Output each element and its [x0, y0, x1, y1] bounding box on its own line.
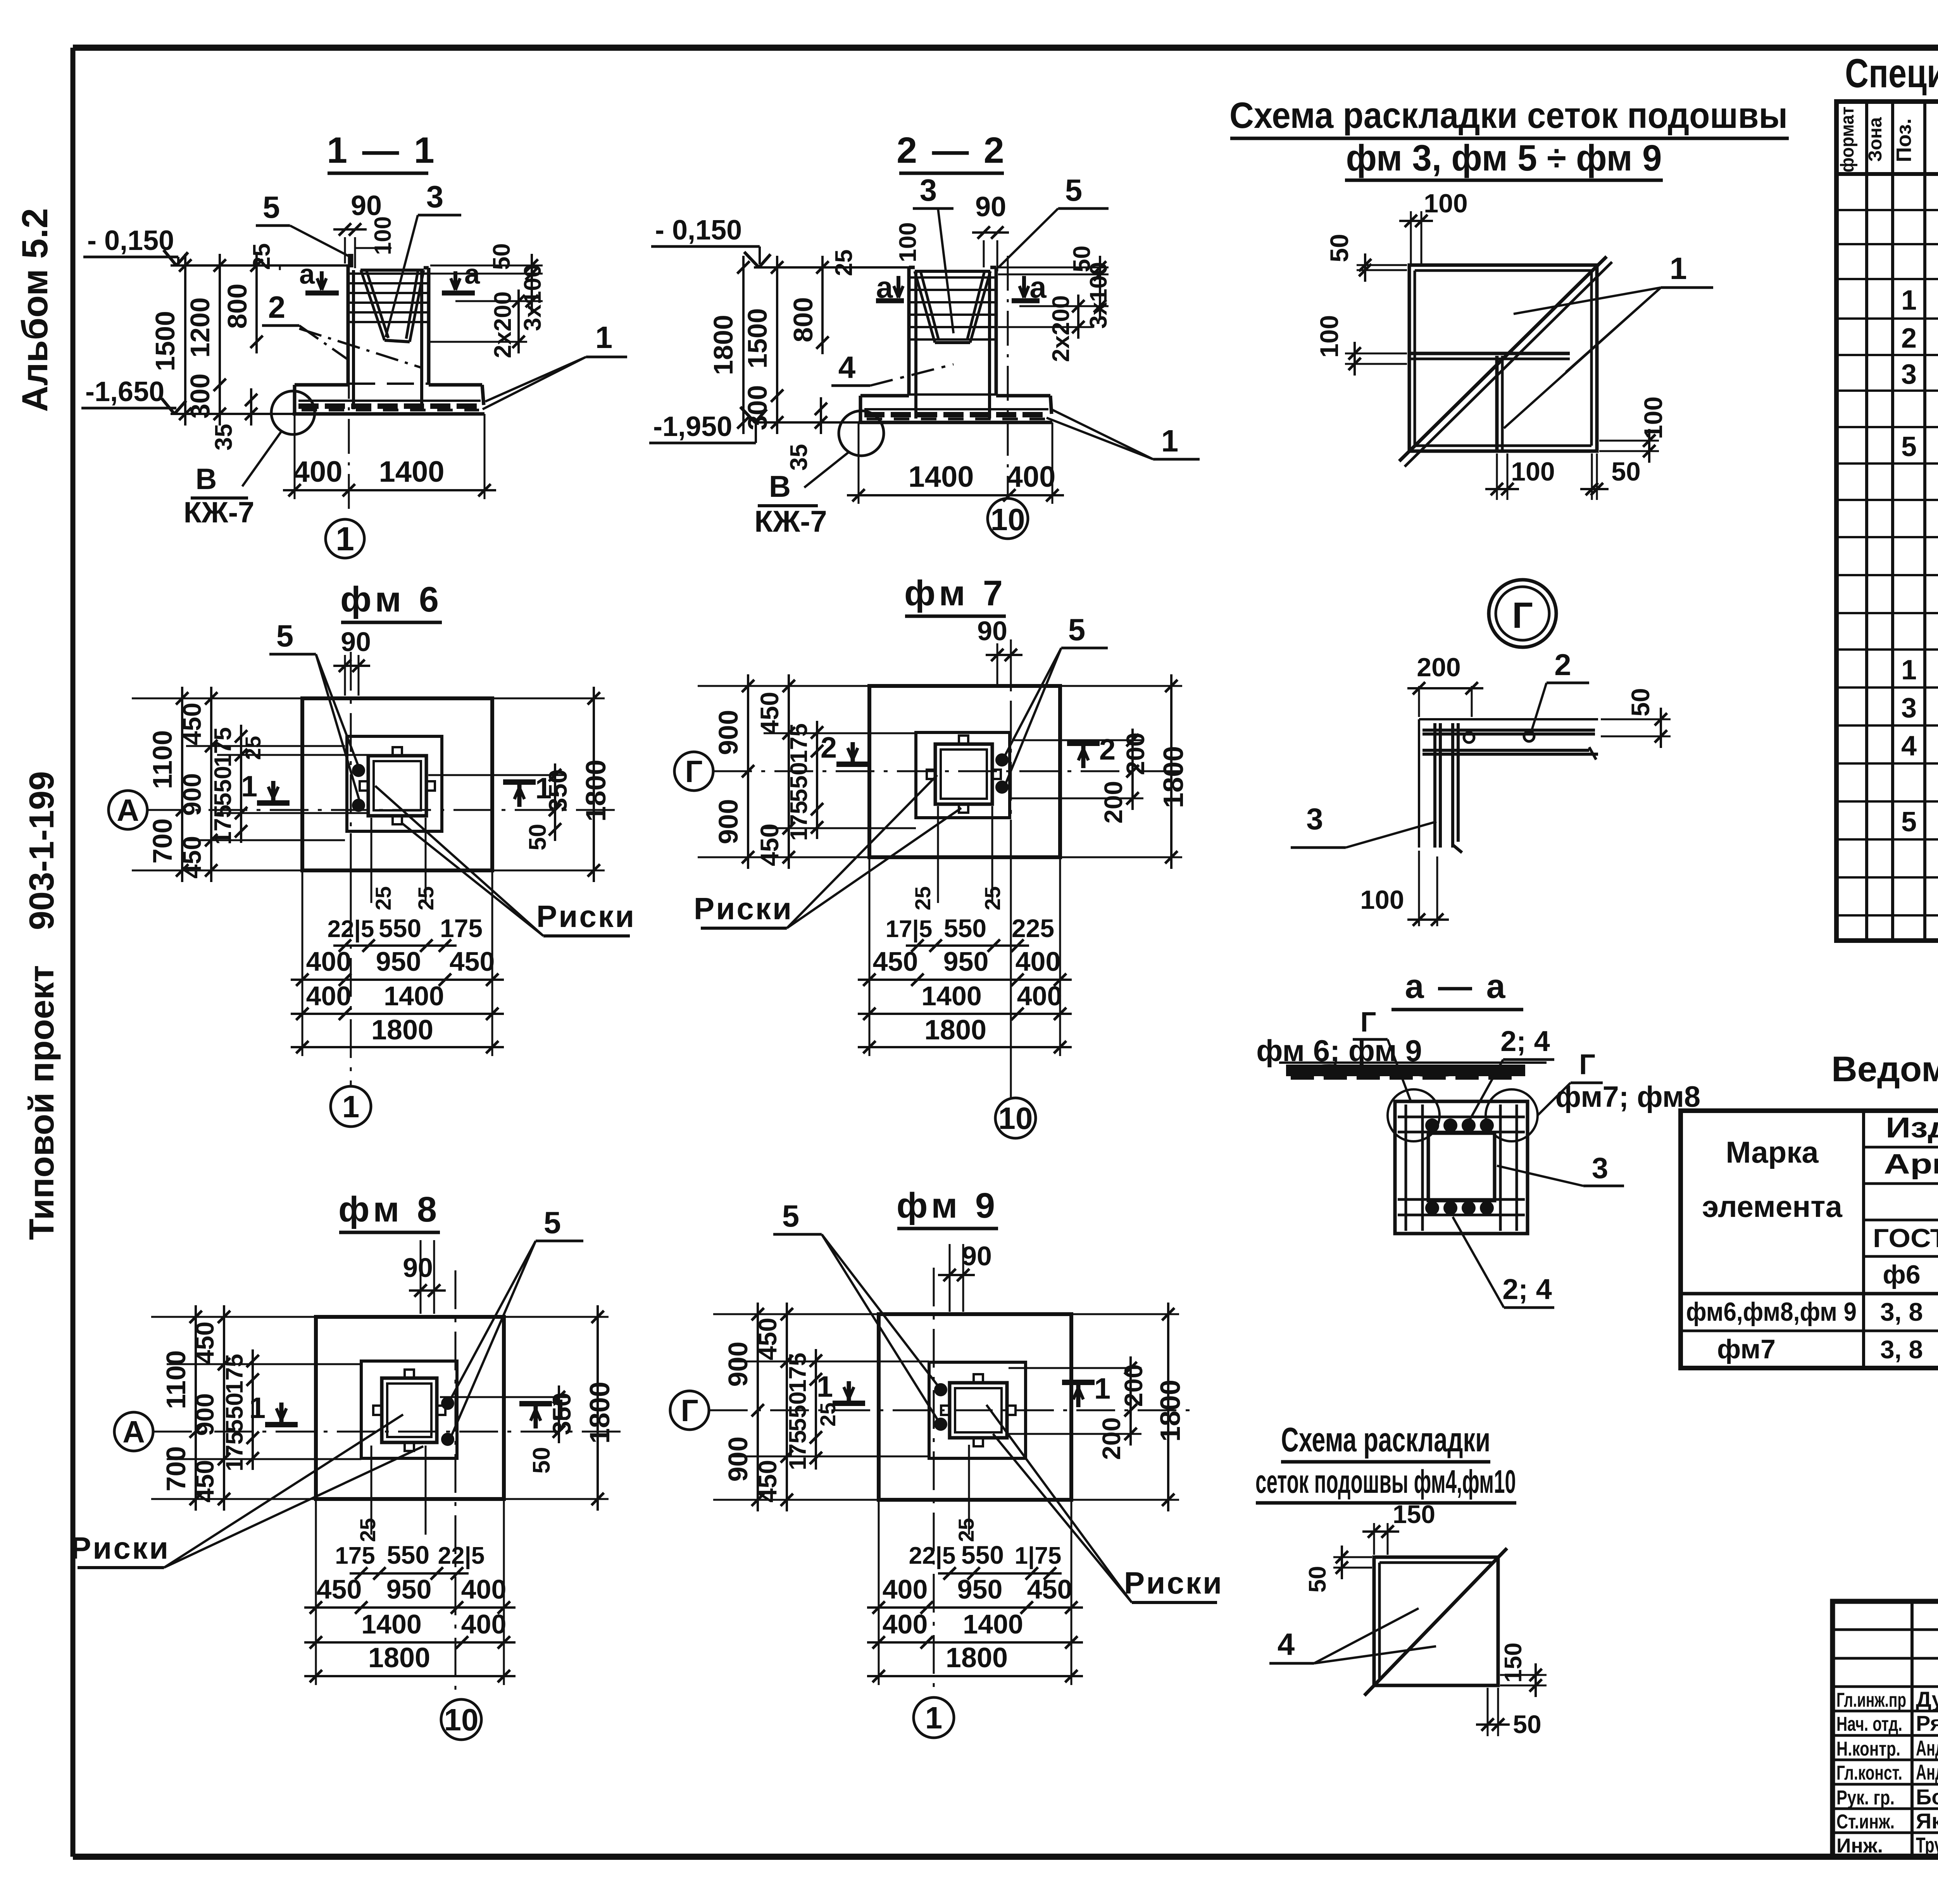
svg-text:-1,650: -1,650 [85, 376, 164, 407]
scheme diagonal mesh edge [1399, 257, 1607, 461]
plan фм 8 row axis circle [114, 1412, 153, 1451]
svg-text:150: 150 [1393, 1500, 1435, 1528]
svg-text:800: 800 [788, 297, 818, 343]
svg-text:1 — 1: 1 — 1 [327, 130, 436, 171]
svg-text:175: 175 [785, 1430, 811, 1470]
plan фм 8 section cut marks [279, 1403, 284, 1425]
svg-text:950: 950 [386, 1574, 432, 1604]
svg-text:200: 200 [1417, 653, 1460, 682]
section 1-1 vertical rebars [352, 270, 355, 409]
scheme dim 50 bottom [1591, 453, 1593, 500]
section 1-1 dim 100 rotated [355, 247, 391, 249]
plan fm9 bottom dims [968, 1445, 970, 1535]
svg-text:25: 25 [954, 1518, 978, 1542]
svg-text:2; 4: 2; 4 [1500, 1025, 1550, 1057]
scheme2 dim 150 right [1500, 1674, 1547, 1676]
plan фм 9 outer slab [879, 1314, 1071, 1500]
svg-text:90: 90 [962, 1241, 992, 1271]
svg-text:3: 3 [426, 179, 444, 214]
svg-text:10: 10 [444, 1702, 479, 1737]
plan fm8 left dims [151, 1316, 314, 1318]
svg-text:формат: формат [1837, 107, 1858, 172]
plan fm7 right dims [1012, 739, 1143, 741]
detail G mesh outline corner [1419, 718, 1598, 720]
section 1-1 dim 50 3x100 2x200 [531, 254, 533, 285]
plan фм 8 glass [382, 1378, 437, 1442]
svg-text:450: 450 [190, 1322, 219, 1364]
svg-text:400: 400 [883, 1609, 928, 1639]
plan fm8 risk dots [442, 1397, 453, 1409]
plan fm6 right dims [428, 774, 566, 776]
svg-text:450: 450 [317, 1574, 362, 1604]
svg-text:300: 300 [742, 385, 772, 431]
plan fm7 left dims [698, 685, 867, 687]
svg-text:50: 50 [1611, 457, 1641, 486]
svg-text:фм 6: фм 6 [340, 580, 443, 619]
svg-text:фм 3, фм 5 ÷ фм 9: фм 3, фм 5 ÷ фм 9 [1346, 138, 1662, 179]
section 1-1 axis circle 1 [326, 519, 364, 558]
plan фм 8 horizontal axis [153, 1431, 628, 1433]
plan fm6 left dims [132, 698, 300, 700]
svg-text:- 0,150: - 0,150 [87, 225, 174, 256]
svg-text:400: 400 [883, 1574, 928, 1604]
svg-text:3x100: 3x100 [1085, 262, 1112, 329]
svg-text:550: 550 [379, 914, 421, 943]
svg-text:1500: 1500 [742, 308, 772, 369]
svg-text:фм7: фм7 [1717, 1334, 1776, 1364]
section 1-1 socket (stakan) [360, 269, 424, 272]
svg-text:2: 2 [268, 290, 286, 324]
section 2-2 dim 800 [821, 256, 824, 354]
svg-text:1800: 1800 [581, 760, 612, 822]
svg-text:550: 550 [210, 766, 236, 806]
scheme2 square [1374, 1557, 1498, 1685]
svg-text:100: 100 [1315, 315, 1343, 358]
svg-text:800: 800 [222, 284, 252, 329]
svg-text:450: 450 [753, 1460, 782, 1503]
section 2-2 footing [860, 394, 909, 398]
svg-text:Зона: Зона [1865, 117, 1886, 162]
svg-text:22|5: 22|5 [328, 916, 374, 943]
svg-text:175: 175 [785, 1353, 811, 1392]
plan fm8 right dims [440, 1396, 570, 1398]
section 2-2 axis line [1007, 256, 1009, 496]
plan фм 6 vertical axis [350, 652, 352, 1086]
plan fm6 bottom dims [350, 833, 352, 911]
svg-text:3: 3 [1901, 359, 1917, 390]
svg-text:300: 300 [185, 374, 215, 419]
svg-text:450: 450 [1027, 1574, 1072, 1604]
svg-text:50: 50 [528, 1447, 555, 1474]
svg-text:Нач. отд.: Нач. отд. [1836, 1713, 1902, 1735]
plan фм 9 vertical axis [933, 1268, 935, 1697]
svg-text:ф6: ф6 [1883, 1260, 1920, 1289]
svg-text:1100: 1100 [147, 730, 178, 789]
svg-text:50: 50 [1626, 688, 1655, 716]
svg-text:90: 90 [975, 191, 1006, 222]
svg-text:100: 100 [1639, 396, 1667, 439]
svg-text:550: 550 [387, 1540, 429, 1569]
plan фм 7 glass [935, 744, 992, 804]
svg-text:Андриевская: Андриевская [1916, 1736, 1938, 1760]
svg-text:Схема раскладки сеток подошвы: Схема раскладки сеток подошвы [1229, 95, 1788, 136]
plan fm7 bottom dims [1010, 820, 1012, 1070]
svg-text:Схема раскладки: Схема раскладки [1281, 1420, 1490, 1459]
svg-text:Гл.инж.пр: Гл.инж.пр [1836, 1689, 1906, 1711]
svg-text:2 — 2: 2 — 2 [897, 130, 1006, 171]
svg-text:550: 550 [786, 762, 812, 802]
svg-text:450: 450 [190, 1460, 219, 1503]
svg-text:Рябуха: Рябуха [1916, 1711, 1938, 1735]
svg-text:Инж.: Инж. [1836, 1835, 1883, 1857]
plan фм 8 middle step [361, 1361, 457, 1458]
scheme mesh divider vertical [1495, 356, 1499, 451]
scheme2 dim 150 top [1373, 1523, 1375, 1555]
svg-text:1800: 1800 [946, 1642, 1008, 1673]
svg-text:2; 4: 2; 4 [1502, 1273, 1552, 1305]
svg-text:Н.контр.: Н.контр. [1836, 1738, 1900, 1760]
svg-text:2: 2 [1099, 733, 1116, 766]
svg-text:950: 950 [957, 1574, 1003, 1604]
svg-text:100: 100 [370, 216, 396, 255]
svg-text:400: 400 [461, 1574, 507, 1604]
section 1-1 footing [295, 383, 348, 387]
svg-text:175: 175 [221, 1354, 248, 1394]
svg-text:1800: 1800 [368, 1642, 430, 1673]
plan fm6 risk dots [353, 765, 364, 776]
svg-text:700: 700 [147, 818, 178, 864]
svg-text:450: 450 [178, 836, 206, 879]
svg-text:400: 400 [306, 946, 352, 977]
plan фм 9 glass [950, 1383, 1007, 1438]
plan фм 7 vertical axis [1010, 639, 1012, 1098]
svg-text:25: 25 [414, 886, 438, 910]
svg-text:2x200: 2x200 [490, 291, 516, 358]
section a-a rebar dots bottom [1426, 1202, 1438, 1214]
svg-text:950: 950 [376, 946, 421, 977]
svg-text:25: 25 [910, 886, 935, 910]
svg-text:Думан: Думан [1916, 1687, 1938, 1711]
svg-text:А: А [122, 1415, 145, 1449]
plan fm8 dim 1800 right [506, 1316, 609, 1318]
section 1-1 bottom dims 400 1400 [283, 489, 496, 491]
svg-text:1: 1 [241, 770, 257, 803]
svg-text:35: 35 [786, 444, 812, 471]
svg-text:150: 150 [1500, 1642, 1527, 1682]
stamp left rows [1833, 1628, 1938, 1631]
plan фм 9 middle step [929, 1362, 1026, 1458]
svg-text:175: 175 [210, 727, 236, 767]
svg-text:50: 50 [1513, 1710, 1541, 1739]
section 1-1 column rebar bars [349, 272, 428, 275]
svg-text:5: 5 [276, 619, 294, 653]
svg-text:25: 25 [241, 736, 265, 760]
svg-text:Ст.инж.: Ст.инж. [1836, 1811, 1895, 1833]
svg-text:а — а: а — а [1405, 967, 1508, 1005]
plan фм 6 axis circle [331, 1086, 371, 1127]
svg-text:903-1-199: 903-1-199 [22, 771, 61, 930]
svg-text:-1,950: -1,950 [653, 411, 732, 442]
plan фм 9 horizontal axis [709, 1409, 1195, 1411]
section a-a mesh ladder verticals [1405, 1104, 1407, 1231]
svg-text:550: 550 [961, 1540, 1004, 1569]
section 1-1 column [347, 265, 350, 385]
svg-text:175: 175 [335, 1542, 375, 1569]
svg-text:17|5: 17|5 [886, 916, 933, 943]
svg-text:1400: 1400 [908, 460, 974, 493]
svg-text:50: 50 [524, 824, 551, 851]
svg-text:1800: 1800 [371, 1015, 433, 1046]
section a-a mesh ladder horizontals [1398, 1116, 1525, 1118]
svg-text:50: 50 [1304, 1566, 1331, 1593]
spec table column lines [1865, 102, 1868, 941]
svg-text:90: 90 [977, 616, 1007, 646]
scheme dim 100 bottom [1496, 453, 1498, 500]
svg-text:450: 450 [873, 946, 918, 977]
plan fm8 dim 90 top [420, 1240, 422, 1314]
svg-text:- 0,150: - 0,150 [655, 215, 742, 246]
svg-text:5: 5 [1068, 612, 1086, 647]
section 1-1 dim 1500 [184, 254, 186, 426]
svg-text:1400: 1400 [384, 981, 444, 1011]
svg-text:400: 400 [1007, 460, 1056, 493]
section 2-2 dim 1800 [742, 256, 745, 434]
scheme mesh divider horizontal [1409, 352, 1570, 355]
svg-text:Г: Г [1512, 595, 1533, 636]
scheme2 dim 50 left [1333, 1556, 1372, 1558]
svg-text:550: 550 [944, 914, 986, 943]
svg-text:22|5: 22|5 [438, 1542, 485, 1570]
svg-text:900: 900 [713, 799, 743, 844]
svg-text:175: 175 [210, 805, 236, 844]
svg-text:В: В [196, 463, 217, 496]
svg-text:25: 25 [831, 250, 857, 276]
svg-text:10: 10 [991, 502, 1025, 537]
spec table header row line [1836, 172, 1938, 176]
scheme dim 100 top [1410, 211, 1412, 264]
section 2-2 axis circle 10 [988, 498, 1028, 539]
svg-text:1800: 1800 [1158, 746, 1189, 808]
section 2-2 bottom dims 1400 400 [847, 494, 1064, 496]
plan фм 6 section cut marks [271, 781, 276, 803]
svg-text:175: 175 [786, 723, 812, 763]
svg-text:Андриевская: Андриевская [1916, 1760, 1938, 1784]
svg-text:1400: 1400 [379, 455, 444, 488]
svg-text:400: 400 [293, 455, 343, 488]
plan fm7 dim 1800 right [1062, 685, 1182, 687]
section a-a inner glass square [1428, 1133, 1495, 1201]
svg-text:400: 400 [306, 981, 352, 1011]
scheme dim 100 left [1345, 353, 1407, 355]
svg-text:225: 225 [1012, 914, 1054, 943]
svg-text:1800: 1800 [1155, 1380, 1186, 1442]
svg-text:35: 35 [210, 424, 237, 451]
svg-text:200: 200 [1099, 781, 1128, 824]
svg-text:3: 3 [1901, 693, 1917, 724]
plan фм 7 middle step [916, 732, 1010, 818]
svg-text:3, 8: 3, 8 [1880, 1335, 1923, 1364]
svg-text:550: 550 [785, 1391, 811, 1431]
svg-text:1: 1 [336, 520, 354, 558]
svg-text:1: 1 [1161, 424, 1179, 458]
plan fm6 dim 1800 right [494, 698, 605, 700]
svg-text:4: 4 [1278, 1627, 1295, 1661]
svg-text:25: 25 [355, 1518, 380, 1542]
svg-text:сеток подошвы фм4,фм10: сеток подошвы фм4,фм10 [1255, 1463, 1516, 1500]
scheme square mesh C1 [1409, 265, 1597, 451]
detail G dim 50 [1601, 719, 1671, 720]
section 2-2 dim 1500 300 [776, 256, 778, 434]
svg-text:1100: 1100 [161, 1350, 191, 1409]
plan фм 6 outer slab [302, 698, 492, 870]
svg-text:450: 450 [450, 946, 495, 977]
svg-text:Г: Г [1579, 1048, 1595, 1080]
svg-text:25: 25 [980, 886, 1005, 910]
stamp outer [1833, 1601, 1938, 1857]
section a-a rebar dots top [1426, 1119, 1438, 1132]
scheme2 diagonal [1364, 1548, 1507, 1696]
svg-text:3: 3 [920, 173, 937, 207]
svg-text:1: 1 [1670, 251, 1687, 286]
svg-text:Поз.: Поз. [1892, 119, 1916, 162]
svg-text:1400: 1400 [361, 1609, 422, 1639]
section 2-2 dim 50 3x100 2x200 [1099, 256, 1101, 286]
section 1-1 axis line [348, 254, 350, 517]
svg-text:4: 4 [838, 350, 856, 384]
svg-text:5: 5 [263, 190, 280, 224]
svg-text:700: 700 [161, 1446, 191, 1492]
svg-text:1: 1 [342, 1089, 360, 1124]
svg-text:Якобчик: Якобчик [1916, 1809, 1938, 1833]
steel table outer [1681, 1111, 1938, 1368]
svg-text:1800: 1800 [585, 1382, 616, 1444]
steel table vertical lines [1862, 1111, 1865, 1368]
svg-text:А: А [117, 793, 139, 827]
svg-text:Арматура класса: Арматура класса [1884, 1149, 1938, 1180]
svg-text:1400: 1400 [963, 1609, 1023, 1639]
plan fm9 left dims [713, 1313, 877, 1315]
svg-text:Риски: Риски [71, 1531, 170, 1565]
section 2-2 column [907, 267, 911, 396]
section a-a leader circles [1388, 1089, 1440, 1141]
section 1-1 footing mesh [298, 403, 481, 409]
section 1-1 detail circle V KZh-7 [271, 391, 315, 434]
svg-text:450: 450 [178, 703, 206, 745]
svg-text:50: 50 [488, 243, 515, 270]
svg-text:3: 3 [1592, 1152, 1608, 1185]
svg-text:25: 25 [371, 886, 395, 910]
section 1-1 bottom level line [171, 413, 295, 415]
svg-text:1200: 1200 [185, 297, 215, 358]
svg-text:Изделия арматурные: Изделия арматурные [1886, 1111, 1938, 1144]
svg-text:400: 400 [461, 1609, 507, 1639]
svg-text:Г: Г [681, 1393, 698, 1428]
scheme2 diagonal break [1426, 1616, 1439, 1632]
scheme dim 100 right [1599, 440, 1659, 442]
plan fm6 dim 90 top [344, 655, 346, 696]
svg-text:175: 175 [786, 801, 812, 841]
svg-text:Типовой проект: Типовой проект [22, 965, 61, 1240]
section 1-1 right extension lines [430, 265, 543, 267]
svg-text:22|5: 22|5 [909, 1542, 956, 1570]
steel table horizontal lines [1864, 1146, 1938, 1149]
svg-text:200: 200 [1119, 1364, 1148, 1407]
svg-text:400: 400 [1016, 946, 1061, 977]
plan фм 6 row axis circle [109, 791, 147, 829]
svg-text:Риски: Риски [694, 891, 793, 926]
detail G dim 200 [1418, 686, 1420, 717]
detail G bar circles [1464, 732, 1474, 743]
svg-text:10: 10 [998, 1101, 1033, 1136]
svg-text:Трубчанина: Трубчанина [1916, 1833, 1938, 1857]
plan фм 8 outer slab [316, 1317, 504, 1499]
svg-text:175: 175 [221, 1431, 248, 1471]
svg-text:50: 50 [1325, 234, 1353, 262]
plan фм 8 vertical axis [455, 1270, 457, 1699]
stamp left columns [1910, 1601, 1914, 1857]
svg-text:фм6,фм8,фм 9: фм6,фм8,фм 9 [1686, 1297, 1857, 1327]
section 2-2 socket (stakan) [915, 270, 990, 273]
svg-text:90: 90 [341, 627, 371, 657]
svg-text:1400: 1400 [921, 981, 982, 1011]
svg-text:Г: Г [1360, 1007, 1376, 1038]
section 2-2 right extension lines [998, 267, 1109, 269]
svg-text:450: 450 [753, 1318, 782, 1360]
plan фм 9 row axis circle [670, 1391, 709, 1430]
svg-text:Бобрук: Бобрук [1916, 1785, 1938, 1809]
svg-text:100: 100 [895, 222, 921, 262]
svg-text:1|75: 1|75 [1015, 1542, 1062, 1570]
svg-text:1800: 1800 [708, 315, 738, 375]
section 2-2 vertical rebars [914, 271, 917, 419]
plan fm8 bottom dims [371, 1446, 372, 1535]
svg-text:фм 7: фм 7 [904, 574, 1007, 613]
svg-text:В: В [769, 469, 791, 503]
spec table outer [1836, 102, 1938, 941]
plan fm9 right dims [1009, 1367, 1141, 1369]
plan фм 6 glass [368, 756, 426, 816]
plan фм 7 section cut marks [851, 742, 855, 764]
svg-text:175: 175 [440, 914, 483, 943]
drawing frame [73, 45, 1938, 51]
svg-text:Г: Г [685, 754, 702, 789]
plan fm7 risk dots [996, 754, 1008, 766]
svg-text:5: 5 [1901, 806, 1917, 837]
section 2-2 dim 35 [820, 397, 822, 434]
plan фм 9 section cut marks [847, 1381, 851, 1403]
svg-text:900: 900 [713, 710, 743, 755]
svg-text:1: 1 [1094, 1372, 1110, 1405]
svg-text:2: 2 [1554, 648, 1571, 682]
svg-text:90: 90 [403, 1253, 433, 1283]
plan фм 6 horizontal axis [147, 809, 616, 811]
svg-text:Альбом 5.2: Альбом 5.2 [14, 208, 55, 412]
svg-text:1500: 1500 [150, 311, 180, 371]
section 2-2 detail circle V KZh-7 [839, 411, 884, 456]
section a-a column outer square [1395, 1101, 1528, 1234]
detail G circle [1489, 580, 1556, 647]
plan fm7 dim 90 top [997, 643, 998, 684]
plan fm9 dim 1800 right [1073, 1313, 1179, 1315]
detail G corner bars vertical [1433, 723, 1436, 848]
svg-text:450: 450 [755, 692, 784, 734]
scheme2 dim 50 bottom [1487, 1688, 1489, 1736]
section 2-2 column rebar bars [910, 276, 995, 279]
svg-text:550: 550 [221, 1392, 248, 1432]
svg-text:5: 5 [1065, 173, 1083, 207]
svg-text:2: 2 [821, 731, 837, 764]
svg-text:1: 1 [925, 1701, 943, 1735]
